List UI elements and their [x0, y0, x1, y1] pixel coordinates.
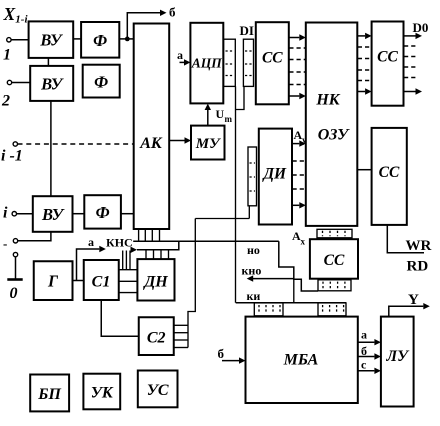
block VU3	[33, 196, 73, 232]
block LU	[381, 317, 414, 407]
svg-text:Ф: Ф	[94, 73, 108, 92]
svg-text:i: i	[3, 205, 8, 222]
svg-text:но: но	[247, 243, 260, 257]
node junction dot	[125, 37, 130, 42]
block ADC	[190, 23, 223, 104]
svg-text:i -1: i -1	[1, 148, 23, 165]
svg-text:НК: НК	[315, 92, 340, 109]
block AK	[134, 24, 170, 230]
svg-text:СС: СС	[262, 50, 283, 67]
bus strip s1	[224, 39, 236, 86]
wire VU3 to F3	[73, 213, 85, 215]
node input i-1 terminal	[13, 142, 17, 146]
svg-text:МУ: МУ	[195, 136, 221, 152]
node input 2 terminal	[7, 80, 11, 84]
svg-text:б: б	[169, 5, 176, 20]
svg-text:ВУ: ВУ	[40, 75, 65, 94]
node input 1 terminal	[7, 38, 11, 42]
wire F3 to AK	[121, 213, 134, 215]
svg-text:D0: D0	[413, 20, 429, 35]
svg-text:Г: Г	[47, 272, 59, 291]
block BP	[30, 375, 69, 412]
wire dashed i-1 to AK	[18, 143, 134, 145]
svg-text:б: б	[361, 344, 367, 358]
block VU1	[29, 21, 74, 58]
svg-text:а: а	[88, 235, 94, 249]
svg-text:Y: Y	[408, 292, 419, 308]
wire KNO arrow	[253, 278, 294, 280]
svg-text:с: с	[361, 358, 367, 372]
wire NO bus horizontal	[133, 240, 279, 242]
svg-text:СС: СС	[377, 49, 398, 66]
wire SS mid to WR RD	[387, 225, 424, 253]
wire MBA to LU arrow c	[358, 370, 375, 372]
block SS Ax	[310, 239, 358, 279]
wire F1 to AK	[119, 38, 133, 40]
bus DI to OZU arrows	[292, 140, 306, 208]
block NK OZU	[306, 23, 358, 226]
svg-text:m: m	[225, 114, 233, 124]
block MU	[191, 126, 225, 160]
svg-text:С1: С1	[92, 274, 111, 291]
wire LU to Y output	[389, 306, 424, 316]
bus strip s7 MBA right	[318, 303, 346, 316]
svg-text:ДИ: ДИ	[261, 166, 287, 183]
svg-text:x: x	[301, 237, 306, 247]
wire input2 to VU2	[12, 82, 31, 84]
svg-text:Ф: Ф	[93, 31, 107, 50]
block DN	[137, 259, 174, 300]
svg-text:ки: ки	[247, 289, 261, 303]
wire VU1 to VU2	[47, 58, 49, 66]
svg-text:RD: RD	[407, 259, 429, 275]
wire horizontal y218	[195, 218, 249, 220]
block F1	[81, 22, 119, 58]
block C1	[84, 260, 119, 300]
svg-text:ОЗУ: ОЗУ	[318, 127, 350, 144]
svg-text:а: а	[361, 328, 367, 342]
svg-text:WR: WR	[406, 238, 432, 254]
wire KNS arrow line	[131, 247, 138, 253]
svg-text:ВУ: ВУ	[41, 205, 66, 224]
svg-text:ВУ: ВУ	[39, 31, 64, 50]
block SS top-right	[372, 22, 404, 106]
svg-text:СС: СС	[324, 252, 345, 269]
wire minus to VU3 bottom	[18, 232, 51, 241]
ground symbol	[7, 252, 22, 279]
wire VU1 to F1	[73, 38, 81, 40]
bus strip s4 above SS-Ax	[317, 229, 352, 238]
wire branch down to KI line	[293, 279, 295, 303]
wire branch to b output	[127, 13, 160, 39]
svg-text:Ф: Ф	[96, 203, 110, 222]
svg-text:УК: УК	[91, 385, 114, 402]
svg-text:БП: БП	[37, 386, 61, 403]
svg-text:1-i: 1-i	[15, 13, 28, 25]
svg-text:АК: АК	[139, 135, 163, 152]
svg-text:1: 1	[3, 47, 11, 64]
wire MBA to LU arrow b	[358, 356, 375, 358]
wire b arrow into MBA	[222, 360, 239, 362]
wire C1 bottom to C2	[101, 300, 139, 336]
bus D0 output arrows	[404, 33, 423, 95]
bus strip s5 below SS-Ax	[318, 280, 351, 291]
svg-text:2: 2	[1, 93, 10, 110]
block VU2	[30, 66, 73, 101]
wire input i to VU3	[17, 213, 33, 215]
svg-text:U: U	[216, 107, 225, 121]
wire C2 comb right	[174, 325, 188, 347]
block F2	[83, 65, 120, 98]
wire MU to ADC Um arrow	[207, 109, 209, 126]
block C2	[139, 317, 174, 355]
svg-text:DI: DI	[240, 23, 254, 38]
wire NO stepped path to strip s5	[279, 241, 318, 291]
bus strip s6 MBA left	[254, 303, 283, 316]
wire NK to SS mid	[357, 169, 371, 171]
bus strip s3 left of DI	[248, 147, 257, 206]
block MBA	[246, 317, 358, 403]
wire a branch up arrow	[77, 249, 100, 281]
svg-text:-: -	[3, 236, 7, 251]
svg-text:ДН: ДН	[142, 274, 168, 291]
svg-text:МБА: МБА	[283, 352, 319, 369]
wire input1 to VU1	[11, 39, 29, 41]
svg-text:КНС: КНС	[106, 236, 133, 250]
wire G to C1	[73, 280, 84, 282]
block US	[138, 371, 178, 408]
wire a arrow into ADC	[180, 61, 185, 63]
block SS top-left	[256, 22, 289, 104]
svg-text:АЦП: АЦП	[191, 56, 223, 71]
wire MBA to LU arrow a	[358, 341, 375, 343]
node minus terminal	[13, 239, 17, 243]
svg-text:кно: кно	[242, 264, 262, 278]
svg-text:0: 0	[10, 285, 18, 302]
block SS mid-right	[372, 128, 407, 225]
svg-text:СС: СС	[379, 164, 400, 181]
wire C1-DN horizontals	[119, 270, 138, 293]
wire KI line	[236, 302, 346, 304]
wire AK bottom comb	[139, 229, 160, 241]
block UK	[83, 374, 120, 410]
block DI decoder	[259, 129, 292, 225]
wire vertical channel from strip1 down	[235, 86, 237, 302]
node input i terminal	[12, 212, 16, 216]
svg-text:УС: УС	[147, 382, 169, 399]
wire DN top comb	[146, 250, 169, 259]
wire x195 vertical to C2	[188, 219, 195, 348]
wire C1-DN comb verticals	[123, 251, 130, 270]
wire strip2 bottom down to channel	[236, 86, 245, 109]
svg-text:а: а	[177, 48, 183, 62]
bus strip s2	[243, 39, 253, 86]
svg-text:ЛУ: ЛУ	[385, 348, 410, 365]
block G	[34, 261, 73, 300]
bus NK to SS arrows	[357, 33, 371, 95]
bus SS to NK arrows	[289, 34, 306, 99]
block F3	[84, 195, 121, 228]
svg-text:С2: С2	[147, 330, 166, 347]
wire AK to MU arrow	[169, 140, 184, 142]
svg-text:б: б	[218, 346, 225, 361]
wire strip s3 drop	[248, 206, 250, 219]
wire VU2 down to VU3	[50, 101, 52, 196]
